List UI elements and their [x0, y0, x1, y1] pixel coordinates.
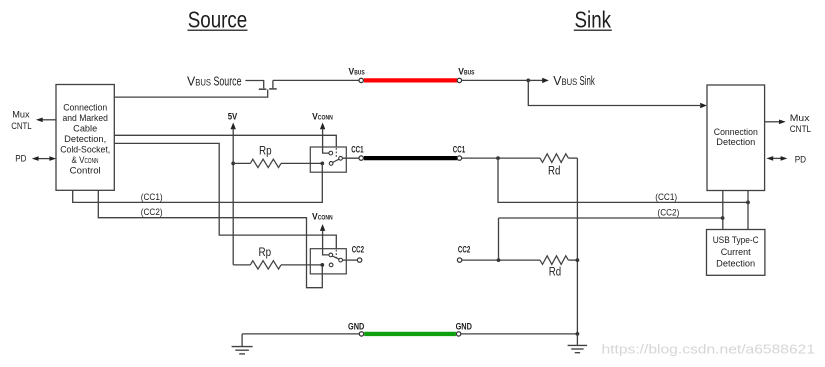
PD bidirectional arrow (sink side)	[766, 154, 806, 164]
resistor Rp (CC2 pull-up)	[233, 247, 322, 269]
junction: S2 pole	[320, 263, 324, 267]
resistor Rd (CC1 pull-down)	[540, 154, 577, 178]
control box U1: Connection and Marked Cable Detection, Cold-Socket, & VCONN Control	[56, 85, 114, 191]
svg-text:Current: Current	[721, 247, 751, 257]
svg-text:Rd: Rd	[549, 266, 561, 278]
wire: Connection Detection to CC1 feedback	[747, 191, 749, 230]
svg-text:CC1: CC1	[351, 144, 363, 154]
svg-text:VBUS: VBUS	[349, 66, 366, 76]
svg-text:https://blog.csdn.net/a6588621: https://blog.csdn.net/a6588621	[602, 341, 816, 356]
wire: GND cable (green)	[364, 332, 456, 336]
wire: (CC1) feedback, source side	[73, 163, 323, 202]
svg-text:VCONN: VCONN	[312, 212, 333, 222]
svg-text:(CC1): (CC1)	[141, 192, 163, 202]
ground: source side	[232, 334, 360, 354]
power: 5V supply	[228, 112, 238, 265]
node: CC1 sink-side terminal	[457, 156, 461, 160]
svg-text:Mux: Mux	[790, 113, 810, 123]
junction: VBUS sink branch	[526, 79, 530, 83]
resistor Rp (CC1 pull-up)	[233, 145, 322, 167]
svg-text:PD: PD	[795, 154, 807, 164]
svg-text:CNTL: CNTL	[11, 121, 31, 131]
svg-text:Rd: Rd	[548, 166, 560, 178]
junction: sink GND	[576, 332, 580, 336]
power: VCONN supply for S1	[312, 112, 333, 154]
svg-text:USB Type-C: USB Type-C	[713, 235, 759, 245]
wire: VBUS to Connection Detection box	[528, 80, 707, 108]
node: VBUS sink-side terminal	[457, 78, 461, 82]
node: CC2 sink-side terminal	[457, 258, 461, 262]
svg-text:VCONN: VCONN	[312, 112, 333, 122]
wire: transistor gate to control box	[114, 90, 267, 98]
junction: CC2 feedback tap	[497, 258, 501, 262]
wire: VBUS cable (red)	[364, 78, 457, 82]
svg-text:GND: GND	[348, 322, 364, 332]
svg-text:and Marked: and Marked	[62, 113, 108, 123]
wire: CC1 cable (black)	[364, 156, 457, 160]
wire: S2 output to CC2 terminal	[343, 259, 358, 261]
svg-text:CC2: CC2	[352, 244, 364, 254]
resistor Rd (CC2 pull-down)	[540, 256, 577, 279]
svg-text:VBUS: VBUS	[458, 66, 475, 76]
node: GND source-side terminal	[359, 332, 363, 336]
svg-text:5V: 5V	[228, 112, 238, 122]
svg-text:Rp: Rp	[259, 145, 272, 157]
power: VCONN supply for S2	[312, 212, 333, 255]
wire: VBUS Source to transistor drain	[245, 81, 263, 89]
svg-text:Detection: Detection	[716, 137, 755, 147]
svg-text:Source: Source	[188, 6, 248, 32]
switch S2 (CC2 VCONN switch)	[310, 249, 346, 274]
Mux CNTL output arrow (sink side)	[765, 113, 812, 134]
svg-text:Connection: Connection	[63, 102, 107, 112]
svg-text:GND: GND	[456, 322, 472, 332]
svg-text:VBUS Sink: VBUS Sink	[553, 74, 595, 88]
svg-text:Connection: Connection	[714, 127, 758, 137]
wire: Rd common to GND	[576, 158, 578, 334]
Mux CNTL output arrow (source side)	[11, 110, 56, 131]
wire: CC1 to Rd1	[462, 157, 540, 159]
junction: CC1 feedback tap	[496, 156, 500, 160]
wire: GND to sink ground	[461, 333, 578, 335]
svg-text:(CC2): (CC2)	[141, 207, 163, 217]
svg-text:PD: PD	[15, 153, 26, 163]
ground: sink side	[568, 334, 588, 353]
PD bidirectional arrow (source side)	[15, 153, 56, 163]
junction: (CC2) to current detection	[721, 216, 725, 220]
svg-text:Cold-Socket,: Cold-Socket,	[60, 145, 110, 155]
svg-text:Mux: Mux	[12, 110, 30, 120]
svg-text:(CC1): (CC1)	[655, 192, 677, 202]
wire: (CC2) feedback, source side	[98, 190, 322, 287]
switch S1 (CC1 VCONN switch)	[310, 147, 346, 172]
wire: VBUS to sink branch	[462, 79, 529, 81]
transistor Q1 (VBUS pass FET)	[259, 80, 277, 89]
svg-text:(CC2): (CC2)	[658, 208, 680, 218]
junction: (CC1) to current detection	[746, 201, 750, 205]
svg-text:Control: Control	[70, 166, 101, 176]
wire: transistor source to VBUS node	[273, 79, 359, 81]
svg-text:Rp: Rp	[259, 247, 272, 259]
detection box U2: Connection Detection	[707, 85, 765, 191]
junction: S1 pole	[320, 162, 324, 166]
wire: (CC2) feedback, sink side	[499, 208, 723, 261]
detection box U3: USB Type-C Current Detection	[707, 230, 765, 276]
arrow: VBUS Sink label	[528, 74, 595, 88]
junction: Rd2 to GND rail	[576, 258, 580, 262]
svg-text:CC1: CC1	[453, 144, 465, 154]
svg-text:Cable: Cable	[73, 124, 97, 134]
node: CC1 source-side terminal	[359, 156, 363, 160]
wire: control box to switch S1 (solid then dotted)	[114, 135, 336, 157]
svg-text:Detection,: Detection,	[64, 134, 106, 144]
node: CC2 source-side terminal	[357, 258, 361, 262]
wire: control box to switch S2 (solid then dotted)	[114, 143, 336, 258]
svg-text:CNTL: CNTL	[790, 124, 811, 134]
svg-text:Detection: Detection	[716, 258, 755, 268]
svg-text:VBUS Source: VBUS Source	[187, 74, 242, 88]
wire: Connection Detection to CC2 feedback	[722, 191, 724, 230]
node: GND sink-side terminal	[456, 332, 460, 336]
node: VBUS source-side terminal	[359, 78, 363, 82]
wire: CC2 to Rd2	[462, 259, 540, 261]
svg-text:CC2: CC2	[458, 244, 470, 254]
wire: S1 output to CC1 terminal	[343, 157, 360, 159]
svg-text:Sink: Sink	[575, 6, 612, 32]
wire: (CC1) feedback, sink side	[498, 158, 748, 202]
junction: 5V to Rp1	[231, 162, 235, 166]
